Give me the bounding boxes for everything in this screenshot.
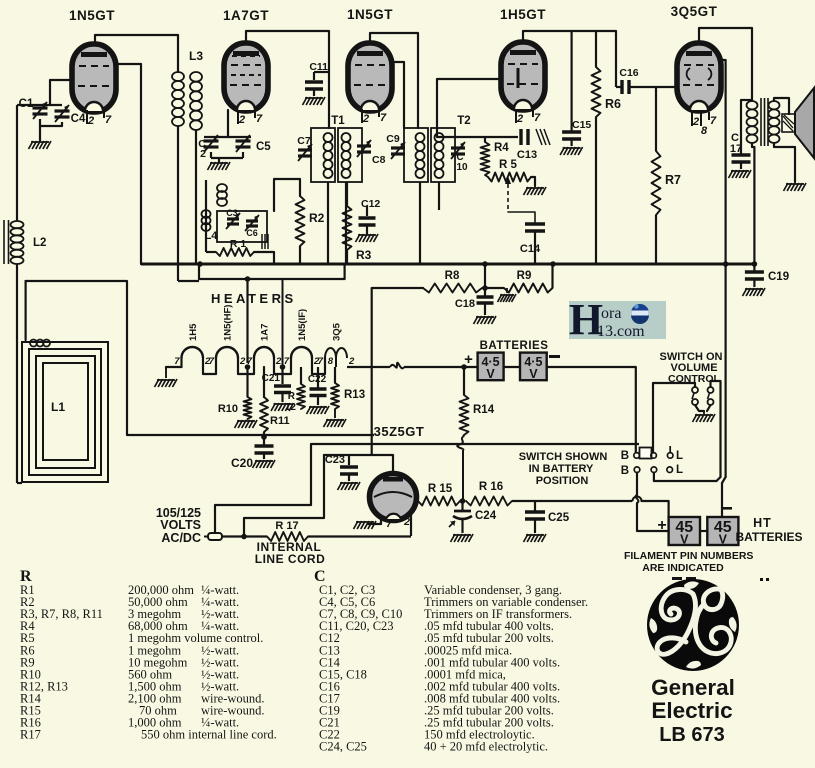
svg-text:550 ohm internal line cord.: 550 ohm internal line cord. — [141, 728, 277, 742]
coil L3 secondary — [190, 72, 202, 82]
wire R14 bottom squiggle — [457, 437, 463, 450]
svg-text:B: B — [621, 450, 629, 462]
output transformer primary coil — [747, 101, 758, 109]
wire plug conductor 1 — [215, 444, 311, 533]
svg-text:General: General — [651, 675, 735, 700]
wire volume switch right — [711, 381, 721, 477]
svg-text:7: 7 — [174, 356, 180, 367]
svg-text:C25: C25 — [548, 512, 570, 524]
ground under speaker — [784, 183, 789, 191]
IF transformer T1 box secondary — [338, 128, 362, 182]
resistor R3 — [343, 206, 352, 250]
svg-text:VOLTS: VOLTS — [160, 518, 201, 532]
coil L4 lower — [202, 210, 211, 218]
capacitor C4 trimmer — [55, 109, 70, 112]
wire R8 feed down — [371, 288, 373, 455]
svg-text:Electric: Electric — [651, 698, 732, 723]
svg-text:1N5GT: 1N5GT — [347, 7, 393, 22]
capacitor C11 — [314, 71, 329, 73]
resistor R14 — [460, 395, 469, 435]
svg-text:C20: C20 — [231, 456, 253, 470]
svg-text:8: 8 — [701, 125, 708, 137]
ground under C11 — [303, 97, 308, 105]
ground under R10 — [235, 420, 240, 428]
loop antenna L1 turn 2 — [29, 349, 101, 475]
wire line B — [311, 443, 636, 445]
tube V2 1A7GT — [224, 43, 268, 111]
wire C2 C5 top — [204, 136, 251, 138]
svg-text:C23: C23 — [325, 454, 345, 466]
wire primary bottom to bus — [752, 143, 754, 264]
svg-text:C9: C9 — [386, 133, 400, 145]
svg-text:2: 2 — [348, 356, 355, 367]
wire R10 top — [246, 367, 248, 397]
tube V1 1N5GT — [72, 44, 116, 112]
speaker voice coil — [782, 114, 795, 132]
wire R7 top — [655, 87, 657, 151]
svg-text:C19: C19 — [768, 271, 789, 283]
wire hop to battery plus — [642, 501, 669, 517]
svg-text:17: 17 — [730, 143, 742, 155]
resistor R15 — [418, 497, 460, 506]
capacitor C21 — [274, 384, 291, 388]
svg-text:2: 2 — [692, 116, 699, 128]
plug symbol — [208, 533, 222, 540]
svg-text:C11: C11 — [309, 61, 328, 73]
wire L2 down to loop antenna — [16, 264, 18, 483]
svg-text:8: 8 — [328, 356, 334, 367]
svg-text:ora: ora — [601, 305, 621, 322]
svg-text:L3: L3 — [189, 49, 203, 63]
wire plug conductor 2 start — [222, 535, 267, 537]
svg-text:2: 2 — [362, 113, 369, 125]
svg-text:R2: R2 — [309, 211, 325, 225]
wire squiggle heater — [347, 366, 390, 368]
resistor R7 — [652, 151, 661, 215]
svg-text:1H5: 1H5 — [188, 323, 199, 341]
battery 45V right — [707, 517, 738, 545]
svg-text:C5: C5 — [256, 141, 271, 153]
ground under C12 — [356, 234, 361, 242]
svg-text:1N5GT: 1N5GT — [69, 8, 115, 23]
capacitor C2 trimmer — [204, 139, 219, 142]
svg-text:2: 2 — [238, 114, 245, 126]
indicator bars — [672, 577, 682, 580]
wire R3 — [346, 250, 348, 264]
svg-text:POSITION: POSITION — [536, 475, 589, 487]
V5 cathode marks — [687, 68, 690, 80]
wire heater dip — [203, 367, 216, 374]
wire C15 feed — [570, 31, 572, 131]
svg-text:C4: C4 — [71, 113, 86, 125]
svg-text:SWITCH SHOWN: SWITCH SHOWN — [519, 451, 608, 463]
pin 2 V4 — [515, 109, 517, 123]
wire heater dip — [274, 367, 291, 374]
resistor R17 — [267, 532, 308, 541]
capacitor C16 — [620, 80, 623, 94]
GE logo ornament curls — [684, 581, 699, 589]
resistor R12 — [297, 384, 305, 409]
switch row1 slider box — [640, 448, 652, 459]
pin 7 V1 — [103, 110, 105, 118]
svg-text:L: L — [676, 464, 683, 476]
ground under C15 — [560, 147, 565, 155]
tube V4 1H5GT — [501, 42, 545, 110]
capacitor C8 trimmer — [357, 144, 371, 147]
wire bus loop to heaters — [246, 279, 248, 363]
svg-text:R8: R8 — [445, 270, 460, 282]
svg-text:C3: C3 — [226, 208, 238, 218]
svg-text:R11: R11 — [270, 415, 290, 427]
wire switch feed left — [636, 443, 639, 445]
wire R6 bottom to bus — [595, 117, 597, 264]
coil L3 primary — [172, 72, 184, 81]
ground at R9 left — [506, 288, 508, 293]
svg-text:C15: C15 — [572, 119, 591, 131]
svg-text:ARE INDICATED: ARE INDICATED — [642, 562, 724, 574]
ground under C19 — [743, 288, 748, 296]
capacitor C17 — [740, 153, 742, 154]
svg-text:1N5(HF): 1N5(HF) — [223, 305, 234, 341]
svg-text:1N5(IF): 1N5(IF) — [297, 309, 308, 341]
wire loop antenna feed top — [26, 281, 127, 435]
svg-text:T2: T2 — [457, 115, 470, 127]
svg-text:10: 10 — [456, 162, 468, 173]
wire R6 top — [595, 31, 597, 67]
ground volume switch — [693, 414, 698, 422]
wire V2 grid caps down — [227, 110, 229, 137]
wire detector node — [437, 136, 518, 138]
svg-text:V: V — [680, 533, 689, 547]
wire oscillator vertical — [205, 180, 207, 233]
coil pigtail top of L1 — [30, 340, 37, 347]
coil T1 primary — [324, 133, 333, 142]
svg-text:R14: R14 — [473, 404, 495, 416]
svg-text:7: 7 — [534, 112, 541, 124]
wire R8 to C18 — [482, 287, 504, 289]
capacitor C25 — [534, 501, 536, 511]
svg-text:R3: R3 — [356, 248, 372, 262]
svg-text:B: B — [621, 465, 629, 477]
wire heater return — [127, 434, 374, 436]
pin 7 V2 — [254, 110, 256, 118]
svg-text:C18: C18 — [455, 298, 475, 310]
wire branch from bus — [484, 264, 486, 288]
wire transformer left lead — [740, 100, 742, 153]
svg-text:C6: C6 — [246, 228, 258, 238]
svg-text:R10: R10 — [218, 403, 238, 415]
capacitor C19 — [753, 264, 755, 271]
ground under C23 — [338, 482, 343, 490]
svg-text:+: + — [657, 517, 666, 534]
wire V5 plate top cap — [699, 28, 752, 100]
IF transformer T2 box secondary — [431, 128, 455, 182]
svg-text:2: 2 — [516, 113, 523, 125]
tube V5 3Q5GT — [677, 43, 721, 111]
oscillator box — [217, 211, 267, 242]
coil T2 primary — [416, 133, 425, 142]
capacitor C24 electrolytic — [461, 501, 463, 511]
wire R2 top — [274, 179, 300, 196]
svg-text:R 16: R 16 — [479, 481, 503, 493]
resistor R10 — [244, 397, 252, 419]
resistor R13 — [331, 383, 339, 409]
wire right verticals join — [722, 477, 726, 483]
ground under C20 — [253, 460, 258, 468]
svg-text:T1: T1 — [331, 115, 345, 127]
wire C1 C4 top — [17, 104, 62, 106]
svg-text:C1: C1 — [19, 98, 34, 110]
wire R16 right — [512, 500, 633, 502]
svg-text:IN BATTERY: IN BATTERY — [529, 463, 594, 475]
svg-text:R 17: R 17 — [275, 520, 298, 532]
svg-text:7: 7 — [380, 112, 387, 124]
svg-text:L1: L1 — [51, 400, 65, 414]
wire secondary top to voice coil — [774, 98, 789, 114]
svg-text:R13: R13 — [344, 389, 365, 401]
wire T2 bottoms to bus — [419, 182, 421, 264]
wire V6 plate top — [324, 455, 393, 474]
wire V6 to R15 — [416, 500, 418, 502]
R5 wiper arrow — [505, 176, 511, 184]
svg-text:3Q5GT: 3Q5GT — [671, 4, 718, 19]
ground under C2 C5 — [208, 162, 213, 170]
capacitor C6 trimmer — [246, 219, 258, 222]
resistor R9 — [504, 284, 553, 293]
watermark Hora13.com — [569, 301, 666, 339]
svg-text:L2: L2 — [33, 237, 46, 249]
output transformer secondary coil — [769, 101, 780, 109]
wire battery minus to switch — [547, 367, 636, 452]
battery 4.5V left — [478, 353, 504, 381]
svg-text:R6: R6 — [605, 97, 621, 111]
svg-text:3Q5: 3Q5 — [332, 322, 343, 341]
svg-text:C8: C8 — [372, 154, 386, 166]
svg-text:1H5GT: 1H5GT — [500, 7, 546, 22]
capacitor C23 — [348, 455, 350, 465]
wire between 45V batteries — [700, 530, 707, 532]
svg-text:C24: C24 — [475, 510, 497, 522]
wire volume switch to ground — [695, 405, 704, 411]
pin 2 V1 — [86, 110, 88, 124]
svg-text:C12: C12 — [361, 198, 380, 210]
svg-text:HEATERS: HEATERS — [211, 291, 297, 306]
wire antenna down to L2 — [16, 105, 18, 221]
svg-text:C22: C22 — [308, 374, 327, 385]
pin 7 V5 — [708, 112, 710, 120]
ground under C1 — [29, 141, 34, 149]
svg-text:L: L — [676, 450, 683, 462]
switch row1 contact mid — [651, 453, 657, 459]
wire heater dip — [312, 367, 325, 374]
wire R1 left — [206, 251, 216, 253]
svg-text:R 1: R 1 — [230, 238, 247, 250]
pin 2 V2 — [237, 110, 239, 124]
padder hatched — [261, 234, 263, 249]
wire plug branch up — [244, 455, 324, 537]
ground under C24 — [451, 534, 456, 542]
resistor R2 — [296, 196, 305, 246]
svg-text:LINE CORD: LINE CORD — [255, 552, 326, 566]
ground under C17 — [729, 170, 734, 178]
resistor R4 — [481, 142, 490, 175]
wire R11 top — [263, 367, 265, 397]
capacitor C3 trimmer — [227, 217, 239, 220]
svg-text:BATTERIES: BATTERIES — [480, 340, 549, 352]
svg-text:1A7GT: 1A7GT — [223, 8, 269, 23]
svg-text:C14: C14 — [520, 243, 541, 255]
svg-text:R4: R4 — [494, 142, 509, 154]
capacitor C22 — [317, 367, 319, 388]
svg-text:R17: R17 — [20, 728, 41, 742]
wire R12 top — [300, 367, 302, 384]
wire R2 bottom — [299, 246, 301, 264]
capacitor C12 — [366, 206, 368, 216]
wire between batteries — [504, 366, 520, 368]
svg-text:1A7: 1A7 — [260, 324, 271, 341]
ground under R13 — [334, 409, 336, 418]
tube filament 1A7 — [253, 358, 255, 367]
svg-text:R: R — [288, 391, 296, 402]
svg-text:R 15: R 15 — [428, 483, 453, 495]
svg-text:AC/DC: AC/DC — [161, 531, 201, 545]
wire L3 primary bottom — [177, 126, 179, 281]
capacitor C5 trimmer — [236, 139, 251, 142]
wire V3 right side — [391, 62, 404, 128]
junction dots on bus — [197, 261, 203, 267]
wire main bus B- — [141, 263, 754, 266]
svg-text:C21: C21 — [262, 373, 281, 384]
ground under C21 — [271, 403, 276, 411]
pin 7 V3 — [378, 109, 380, 117]
svg-text:R9: R9 — [517, 270, 532, 282]
tube V3 1N5GT — [348, 43, 392, 111]
switch row2 contact mid — [651, 467, 657, 473]
GE logo monogram — [661, 589, 693, 620]
svg-text:R 5: R 5 — [499, 159, 518, 171]
wire bus sub-loop — [199, 264, 345, 279]
wire R17 to V6 — [308, 535, 411, 537]
battery 4.5V right — [520, 353, 547, 381]
resistor R11 — [260, 397, 268, 432]
wire V1 input grid left — [50, 80, 73, 105]
svg-text:+: + — [464, 351, 473, 368]
svg-text:C7: C7 — [297, 135, 311, 147]
resistor R8 — [423, 284, 482, 293]
tube filament 3Q5 — [324, 358, 326, 367]
resistor R5 volume control — [488, 173, 531, 182]
svg-text:C24, C25: C24, C25 — [319, 740, 367, 754]
svg-text:7: 7 — [318, 356, 324, 367]
capacitor C20 — [255, 444, 274, 448]
svg-text:40 + 20 mfd electrolytic.: 40 + 20 mfd electrolytic. — [424, 740, 548, 754]
speaker cone — [795, 88, 814, 158]
wire R9 right to bus — [551, 264, 553, 288]
antenna core lines left of L2 — [3, 220, 5, 264]
battery 45V left — [669, 517, 700, 545]
capacitor C7 trimmer — [298, 148, 312, 151]
svg-text:FILAMENT PIN NUMBERS: FILAMENT PIN NUMBERS — [624, 550, 754, 562]
tube filament 1H5 — [180, 358, 182, 367]
wire R13 top — [334, 367, 336, 383]
svg-text:12: 12 — [285, 402, 297, 413]
wire V5 screen right — [720, 60, 726, 477]
wire V6 pin7 ground — [368, 516, 381, 524]
capacitor C18 — [484, 288, 486, 296]
wire heater baseline start — [166, 367, 182, 368]
svg-text:13.com: 13.com — [597, 323, 645, 340]
ground under C25 — [524, 534, 529, 542]
minus sign battery A — [549, 355, 560, 358]
resistor R16 — [466, 497, 512, 506]
svg-text:35Z5GT: 35Z5GT — [374, 424, 425, 439]
wire R1 right to bus — [254, 252, 274, 264]
wire V2 plate top cap — [246, 31, 329, 128]
coil L4 upper — [217, 184, 227, 192]
loop antenna L1 turn 3 — [36, 356, 95, 468]
wire L3 secondary bottom — [195, 130, 197, 264]
wire row2 B down to battery plus — [636, 473, 638, 496]
tube V6 35Z5GT rectifier — [370, 474, 417, 521]
svg-text:2: 2 — [200, 148, 206, 160]
wire heater dip — [238, 367, 254, 374]
watermark globe — [631, 304, 649, 322]
svg-text:2: 2 — [87, 115, 94, 127]
ground under C22 — [307, 406, 312, 414]
svg-text:C13: C13 — [517, 149, 537, 161]
tube filament 1N5(IF) — [290, 358, 292, 367]
wire oscillator top right — [273, 180, 275, 211]
minus sign battery B — [723, 507, 732, 510]
capacitor C9 trimmer — [391, 146, 405, 149]
wire C16 left — [615, 85, 617, 87]
IF transformer T1 box primary — [311, 128, 335, 182]
svg-text:7: 7 — [209, 356, 215, 367]
capacitor C1 trimmer — [33, 106, 48, 109]
wire C21 top — [281, 367, 283, 384]
wire R7 bottom to bus — [655, 215, 657, 264]
wire C1 C4 bottom join — [39, 119, 41, 141]
capacitor C15 — [562, 130, 581, 134]
svg-text:7: 7 — [105, 114, 112, 126]
wire V1 plate top cap to L3 — [95, 35, 178, 72]
wire V4 diode to detector node — [437, 79, 502, 137]
coil T1 secondary — [342, 133, 351, 142]
loop antenna L1 outer — [22, 342, 108, 482]
tube filament 1N5(HF) — [215, 358, 217, 367]
wire V3 plate top to T2 — [370, 33, 418, 128]
coil T2 secondary — [435, 133, 444, 142]
svg-text:V: V — [719, 533, 728, 547]
GE logo circle — [647, 579, 739, 671]
ground right of R5 — [524, 187, 529, 195]
resistor R6 — [592, 67, 601, 117]
volume switch contacts — [692, 387, 698, 393]
wire secondary bottom to ground — [774, 143, 795, 182]
wire R5 right to ground — [531, 177, 535, 186]
svg-text:7: 7 — [247, 356, 253, 367]
ground under C18 — [474, 316, 479, 324]
svg-text:V: V — [529, 367, 538, 381]
wire row2 mid to HT minus — [654, 473, 717, 482]
svg-text:R7: R7 — [665, 173, 681, 187]
capacitor C13 — [519, 129, 522, 145]
loop antenna L1 turn 4 — [43, 363, 88, 460]
svg-text:V: V — [486, 367, 495, 381]
wire C2 C5 bottom join — [210, 152, 212, 158]
pin 7 V4 — [532, 109, 534, 117]
C13 mica hatch — [536, 129, 542, 145]
